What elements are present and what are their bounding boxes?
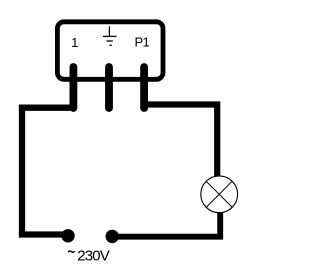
wire from pin 1 left and down to left supply terminal bbox=[22, 108, 73, 235]
supply terminal node left bbox=[61, 229, 74, 242]
wire from pin P1 right and down to lamp top bbox=[144, 105, 217, 180]
connector box U1 bbox=[57, 22, 163, 80]
pin P1 bbox=[140, 67, 148, 108]
wire from lamp bottom left to right supply terminal bbox=[112, 211, 220, 237]
supply terminal node right bbox=[106, 230, 119, 243]
pin PE middle stub bbox=[105, 67, 113, 108]
lamp L1 bbox=[201, 176, 238, 213]
ground bbox=[103, 26, 117, 45]
pin 1 bbox=[70, 67, 78, 108]
supply value label ~ 230V bbox=[68, 247, 110, 264]
svg-text:230V: 230V bbox=[77, 247, 109, 264]
svg-text:P1: P1 bbox=[134, 35, 149, 50]
svg-text:1: 1 bbox=[71, 35, 78, 50]
